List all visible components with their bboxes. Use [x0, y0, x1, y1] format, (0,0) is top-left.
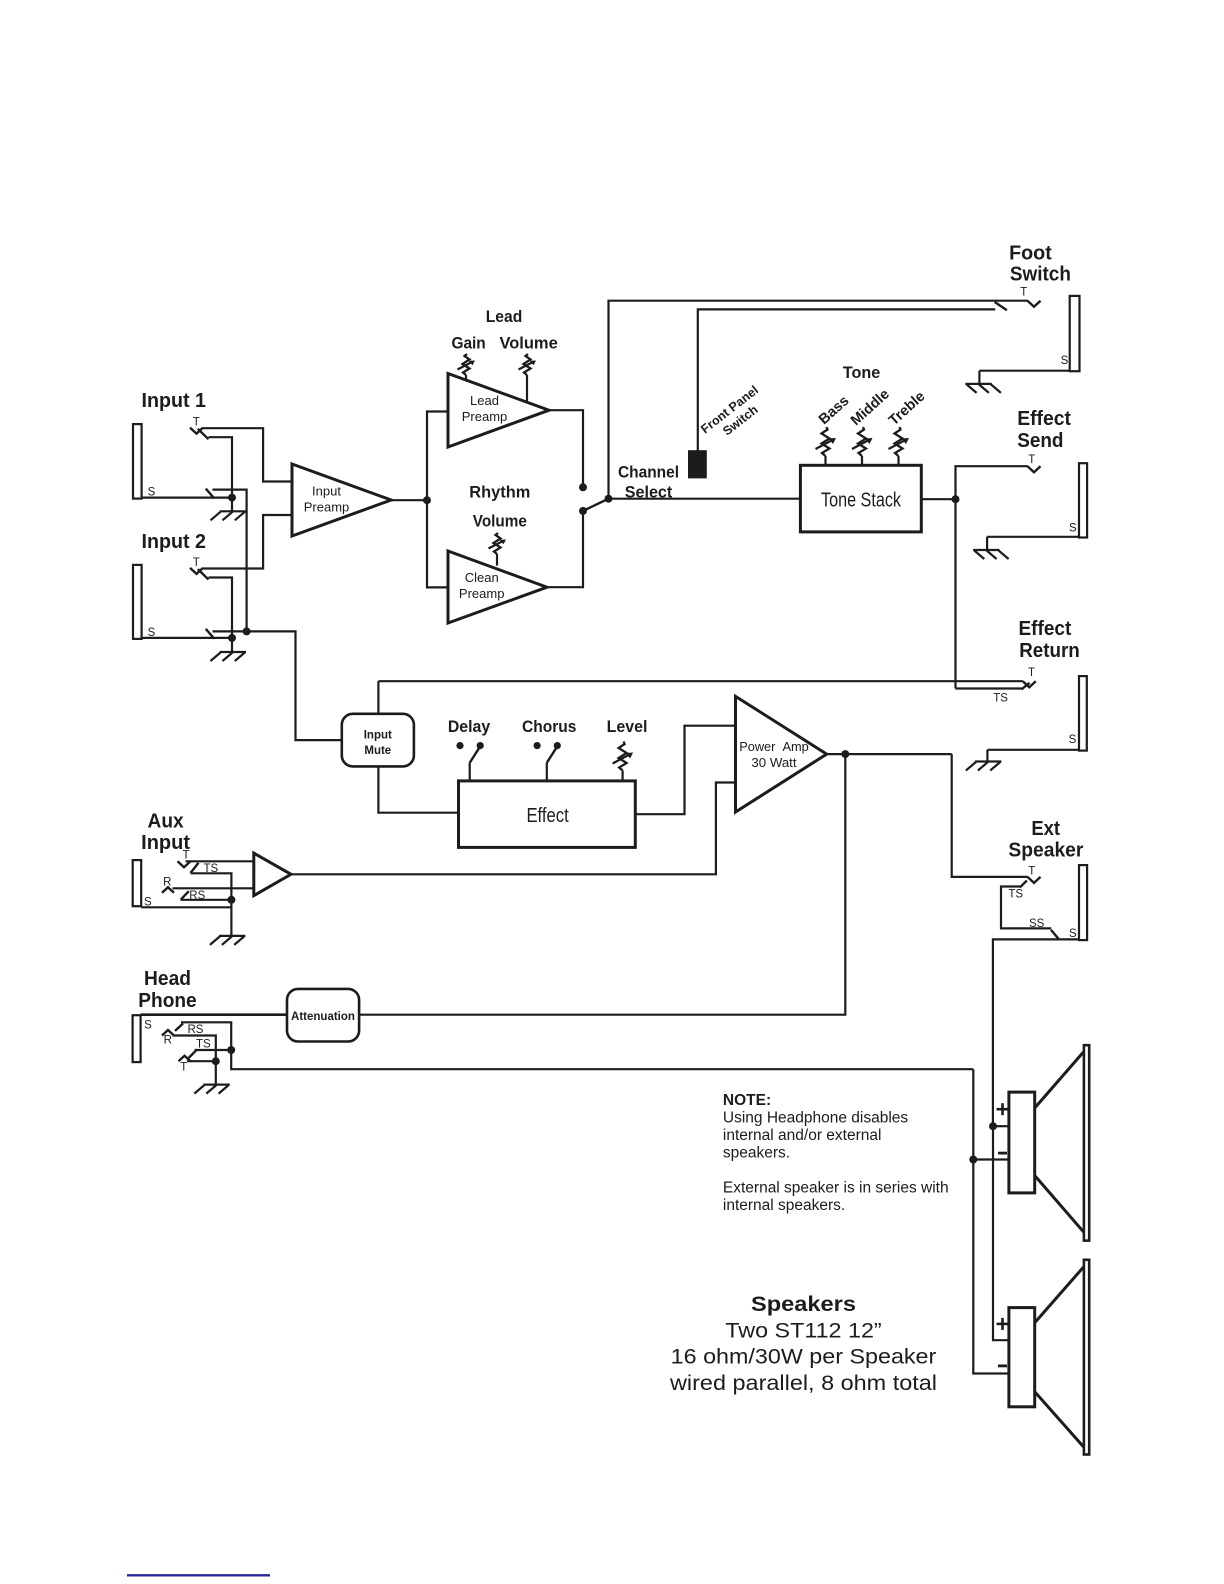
node J6 RS junction	[227, 896, 235, 904]
node input1/input2 arm junction	[243, 627, 251, 635]
svg-text:T: T	[182, 850, 189, 862]
J2 tip switch slash	[198, 569, 209, 579]
svg-text:Channel: Channel	[618, 462, 679, 481]
treble pot VR6	[889, 427, 910, 465]
svg-text:Level: Level	[607, 717, 648, 736]
Gain label	[451, 333, 485, 352]
speaker SP1 magnet	[1009, 1092, 1035, 1193]
node power amp output junction	[841, 750, 849, 758]
middle pot VR5	[852, 427, 873, 465]
op-amp U4 Power Amp 30 Watt	[736, 696, 827, 812]
wire ext speaker TS to SS	[1001, 887, 1051, 929]
wire tone stack output	[921, 498, 955, 500]
svg-text:speakers.: speakers.	[723, 1145, 790, 1162]
svg-text:External speaker is in series: External speaker is in series with	[723, 1180, 949, 1197]
footer blue line	[127, 1574, 270, 1576]
svg-text:Effect: Effect	[526, 805, 569, 827]
effect return jack J5	[1079, 676, 1087, 751]
svg-text:Speakers: Speakers	[751, 1293, 856, 1316]
op-amp U2 Lead Preamp	[448, 374, 549, 448]
svg-text:Input: Input	[364, 730, 392, 742]
wire channel select pole up to foot switch	[609, 301, 1028, 499]
aux jack J6	[133, 860, 142, 906]
node U1 output junction	[423, 496, 431, 504]
input jack J2 (Input 2)	[133, 565, 142, 639]
wire effect return NC to send node	[956, 687, 1022, 689]
op-amp U1 Input Preamp	[292, 464, 391, 536]
wire front panel switch to foot switch	[698, 309, 995, 451]
svg-text:Using Headphone disables: Using Headphone disables	[723, 1110, 909, 1127]
foot switch tip label T	[1020, 287, 1027, 299]
wire J2 sleeve arm to input mute	[213, 631, 342, 740]
wire channel split vertical	[427, 412, 448, 588]
svg-text:internal and/or external: internal and/or external	[723, 1127, 882, 1144]
svg-text:Tone Stack: Tone Stack	[821, 489, 902, 511]
J6 tip label T	[182, 850, 189, 862]
J6 tip chevron	[178, 861, 191, 867]
wire J7 TS to speaker feed node	[195, 1049, 232, 1051]
wire J6 ring to aux amp	[173, 887, 254, 889]
Delay label	[448, 717, 491, 736]
wire power amp to ext speaker	[952, 754, 1028, 877]
svg-text:Ext: Ext	[1031, 818, 1060, 840]
J7 tip label T	[180, 1062, 187, 1074]
Foot Switch label	[1009, 243, 1071, 286]
svg-text:Volume: Volume	[499, 333, 557, 352]
J1 sleeve label S	[148, 487, 156, 499]
svg-text:T: T	[1028, 667, 1035, 679]
ground at foot switch	[965, 384, 1001, 393]
J6 TS label	[203, 863, 218, 875]
J1 tip label T	[193, 417, 200, 429]
svg-text:T: T	[1028, 454, 1035, 466]
J2 tip contact chevron	[190, 568, 203, 574]
node SP1 minus junction	[969, 1156, 977, 1164]
svg-text:S: S	[1069, 523, 1077, 535]
ext speaker tip label T	[1028, 866, 1035, 878]
foot switch tip chevron	[1028, 301, 1041, 307]
effect return TS label	[993, 693, 1008, 705]
SP2 plus sign	[997, 1318, 1009, 1330]
wire effect return tip line	[378, 680, 1022, 682]
svg-text:Preamp: Preamp	[304, 500, 350, 515]
front panel switch body	[689, 451, 706, 477]
svg-text:Volume: Volume	[473, 512, 527, 531]
SP1 minus sign	[998, 1152, 1007, 1155]
J1 tip switch slash	[198, 429, 209, 439]
svg-text:Return: Return	[1019, 640, 1080, 662]
svg-text:Switch: Switch	[1010, 263, 1071, 285]
J6 ring chevron	[162, 887, 174, 893]
svg-text:wired parallel, 8 ohm total: wired parallel, 8 ohm total	[669, 1371, 937, 1395]
Attenuation block	[287, 989, 359, 1042]
J7 tip chevron	[179, 1056, 191, 1062]
J7 ring label R	[164, 1035, 172, 1047]
Head Phone label	[138, 968, 196, 1012]
op-amp U3 Clean Preamp	[448, 551, 547, 623]
Tone Stack block	[800, 465, 921, 532]
svg-text:Power Amp: Power Amp	[739, 739, 809, 754]
svg-text:Effect: Effect	[1017, 408, 1071, 430]
wire J6 sleeve	[141, 906, 231, 908]
J5 sleeve label S	[1069, 734, 1077, 746]
svg-text:Head: Head	[144, 968, 191, 990]
Bass label	[816, 393, 852, 428]
J7 TS slash	[189, 1050, 197, 1058]
Effect block	[459, 781, 636, 848]
J7 RS label	[188, 1024, 204, 1036]
svg-text:Chorus: Chorus	[522, 717, 576, 736]
ext speaker tip chevron	[1028, 877, 1041, 883]
chorus switch SW2	[534, 742, 561, 781]
svg-text:Phone: Phone	[138, 990, 196, 1012]
svg-text:Attenuation: Attenuation	[291, 1011, 355, 1023]
svg-text:Gain: Gain	[451, 333, 485, 352]
ground at input 1	[211, 498, 247, 521]
headphone jack J7	[133, 1015, 141, 1062]
svg-text:Preamp: Preamp	[462, 409, 508, 424]
wire J2 sleeve	[142, 637, 233, 639]
wire channel select to tone stack	[609, 498, 801, 500]
wire J7 tip	[187, 1060, 216, 1062]
svg-text:T: T	[1020, 287, 1027, 299]
foot switch NC slash	[995, 302, 1007, 310]
effect send jack J4	[1079, 463, 1087, 537]
effect return tip chevron	[1023, 681, 1036, 687]
channel select switch arm	[583, 499, 609, 511]
Front Panel Switch label	[698, 383, 761, 438]
svg-text:R: R	[164, 1035, 172, 1047]
channel select contact lead	[579, 483, 587, 491]
node channel select pole	[605, 495, 613, 503]
node J2 sleeve junction	[228, 634, 236, 642]
Input Mute block	[342, 714, 414, 767]
J6 sleeve label S	[144, 896, 152, 908]
Attenuation label	[291, 1011, 355, 1023]
bass pot VR4	[816, 427, 837, 465]
svg-text:T: T	[193, 557, 200, 569]
svg-text:S: S	[144, 1020, 152, 1032]
effect send tip label T	[1028, 454, 1035, 466]
svg-text:TS: TS	[993, 693, 1008, 705]
svg-text:Input 2: Input 2	[142, 531, 207, 553]
wire U3 output to channel select	[547, 511, 583, 587]
speaker SP1 cone	[1035, 1045, 1090, 1240]
ext speaker jack J8	[1079, 865, 1087, 940]
svg-text:Clean: Clean	[465, 570, 499, 585]
Aux Input label	[141, 811, 190, 854]
wire aux amp output to power amp	[291, 783, 736, 875]
ext speaker SS slash	[1051, 930, 1058, 939]
Input 1 label	[142, 390, 207, 412]
node J7 tip junction	[212, 1057, 220, 1065]
J2 sleeve contact slash	[206, 629, 214, 639]
gain pot VR1	[458, 354, 476, 381]
svg-text:T: T	[193, 417, 200, 429]
wire J2 tip NC branch to sleeve node	[209, 578, 233, 638]
wire speaker feed to SP1 minus	[973, 1069, 1009, 1159]
Treble label	[886, 388, 928, 428]
SP2 minus sign	[998, 1365, 1007, 1368]
wire J7 RS to speaker feed	[181, 1022, 973, 1069]
wire J3 sleeve to ground	[979, 371, 1070, 384]
svg-text:RS: RS	[188, 1024, 204, 1036]
svg-text:Treble: Treble	[886, 388, 928, 428]
J6 ring label R	[163, 876, 171, 888]
svg-text:NOTE:: NOTE:	[723, 1092, 771, 1109]
svg-text:Aux: Aux	[148, 811, 184, 833]
Middle label	[848, 386, 893, 429]
wire J6 TS to sleeve node	[191, 873, 232, 900]
svg-text:Input: Input	[312, 483, 341, 498]
J7 sleeve label S	[144, 1020, 152, 1032]
Effect Return label	[1019, 618, 1080, 662]
U2 label	[462, 393, 508, 424]
foot switch jack J3	[1070, 296, 1080, 371]
J1 sleeve contact slash	[206, 489, 214, 499]
svg-text:Bass: Bass	[816, 393, 852, 428]
U3 label	[459, 570, 505, 601]
wire effect return line down to input mute	[377, 681, 379, 714]
Input Mute label	[364, 730, 392, 757]
svg-text:SS: SS	[1029, 918, 1045, 930]
volume pot VR2	[519, 354, 537, 402]
J7 RS slash	[175, 1024, 183, 1031]
J2 sleeve label S	[148, 627, 156, 639]
ext speaker TS slash	[1020, 881, 1027, 888]
ground at input 2	[211, 638, 247, 661]
wire J5 sleeve to ground	[987, 750, 1079, 762]
svg-text:Delay: Delay	[448, 717, 491, 736]
Level label	[607, 717, 648, 736]
wire SP1 plus to SP2 plus	[993, 1126, 1009, 1340]
delay switch SW1	[456, 742, 483, 781]
wire power amp output	[827, 753, 952, 755]
J6 RS slash	[181, 891, 189, 899]
Effect Send label	[1017, 408, 1071, 452]
wire J1 tip to input preamp upper input	[203, 428, 292, 481]
op-amp U5 aux amp	[254, 853, 291, 896]
Volume label (lead)	[499, 333, 557, 352]
svg-text:Foot: Foot	[1009, 243, 1052, 265]
wire U1 output to channel node	[391, 499, 427, 501]
J7 ring chevron	[162, 1030, 174, 1036]
wire J2 tip to input preamp lower input	[203, 515, 292, 569]
wire U2 output to channel select	[549, 410, 583, 487]
svg-text:Two ST112 12”: Two ST112 12”	[725, 1318, 881, 1342]
wire input mute to effect block	[378, 766, 458, 812]
svg-text:Mute: Mute	[364, 745, 391, 757]
speakers spec text	[669, 1293, 937, 1395]
svg-text:S: S	[1061, 355, 1069, 367]
svg-text:Middle: Middle	[848, 386, 893, 429]
svg-text:Input 1: Input 1	[142, 390, 207, 412]
svg-text:internal speakers.: internal speakers.	[723, 1197, 845, 1214]
effect return NC slash	[1021, 683, 1029, 690]
svg-text:T: T	[180, 1062, 187, 1074]
wire J1 sleeve	[142, 497, 233, 499]
channel select contact clean	[579, 507, 587, 515]
input jack J1 (Input 1)	[133, 424, 142, 499]
wire J8 sleeve to speakers	[993, 939, 1079, 1126]
svg-text:Rhythm: Rhythm	[469, 482, 530, 501]
ground at effect send	[973, 550, 1009, 559]
wire J7 sleeve to attenuation	[141, 1013, 287, 1016]
wire effect block output to power amp	[635, 726, 735, 815]
speaker SP2 magnet	[1009, 1308, 1035, 1407]
Ext Speaker label	[1008, 818, 1083, 862]
svg-text:16 ohm/30W per Speaker: 16 ohm/30W per Speaker	[671, 1345, 937, 1369]
wire power amp down to attenuation line	[359, 754, 845, 1015]
wire J6 RS to sleeve node	[181, 899, 232, 901]
ext speaker TS label	[1008, 889, 1023, 901]
svg-text:S: S	[1069, 928, 1077, 940]
svg-text:S: S	[1069, 734, 1077, 746]
ground at aux input	[210, 900, 246, 945]
J4 sleeve label S	[1069, 523, 1077, 535]
node J1 sleeve junction	[228, 494, 236, 502]
speaker SP2 cone	[1035, 1260, 1090, 1455]
svg-text:Send: Send	[1017, 430, 1063, 452]
Channel Select label	[618, 462, 679, 501]
Tone Stack label	[821, 489, 902, 511]
svg-text:Preamp: Preamp	[459, 586, 505, 601]
svg-text:Lead: Lead	[470, 393, 499, 408]
ground at headphone	[194, 1061, 230, 1093]
svg-text:T: T	[1028, 866, 1035, 878]
svg-text:Lead: Lead	[486, 307, 523, 326]
Effect block label	[526, 805, 569, 827]
Rhythm Volume label	[469, 482, 530, 530]
svg-text:Speaker: Speaker	[1008, 839, 1083, 861]
rhythm volume pot VR3	[489, 533, 507, 566]
J6 TS slash	[191, 863, 199, 873]
wire SP1 minus to SP2 minus	[973, 1160, 1009, 1374]
wire J4 sleeve to ground	[987, 537, 1079, 550]
SP1 plus sign	[997, 1103, 1009, 1115]
svg-text:Effect: Effect	[1019, 618, 1072, 640]
J7 TS label	[196, 1038, 211, 1050]
Chorus label	[522, 717, 576, 736]
wire J1 sleeve arm to input2 arm	[213, 490, 247, 632]
wire tone node to effect send tip	[956, 466, 1028, 688]
wire J7 ring to tip node	[173, 1036, 216, 1062]
ext speaker SS label	[1029, 918, 1045, 930]
wire J1 tip NC branch to sleeve node	[209, 437, 233, 497]
J6 RS label	[189, 890, 205, 902]
svg-text:TS: TS	[196, 1038, 211, 1050]
svg-text:Tone: Tone	[843, 363, 881, 382]
node effect send junction	[952, 495, 960, 503]
svg-text:TS: TS	[1008, 889, 1023, 901]
node SP1 plus junction	[989, 1122, 997, 1130]
U1 label	[304, 483, 350, 514]
note text	[723, 1092, 949, 1214]
effect return tip label T	[1028, 667, 1035, 679]
node J7 TS junction	[227, 1046, 235, 1054]
effect send tip chevron	[1028, 466, 1041, 472]
J3 sleeve label S	[1061, 355, 1069, 367]
wire J6 tip to aux amp	[186, 860, 254, 862]
level pot VR7	[613, 742, 634, 781]
J1 tip contact chevron	[190, 428, 203, 434]
svg-text:30 Watt: 30 Watt	[751, 755, 796, 770]
Input 2 label	[142, 531, 207, 553]
ground at effect return	[966, 762, 1002, 771]
wire SP1 plus	[993, 1125, 1009, 1127]
Lead label	[486, 307, 523, 326]
U4 label	[739, 739, 809, 770]
J8 sleeve label S	[1069, 928, 1077, 940]
J2 tip label T	[193, 557, 200, 569]
Tone label	[843, 363, 881, 382]
